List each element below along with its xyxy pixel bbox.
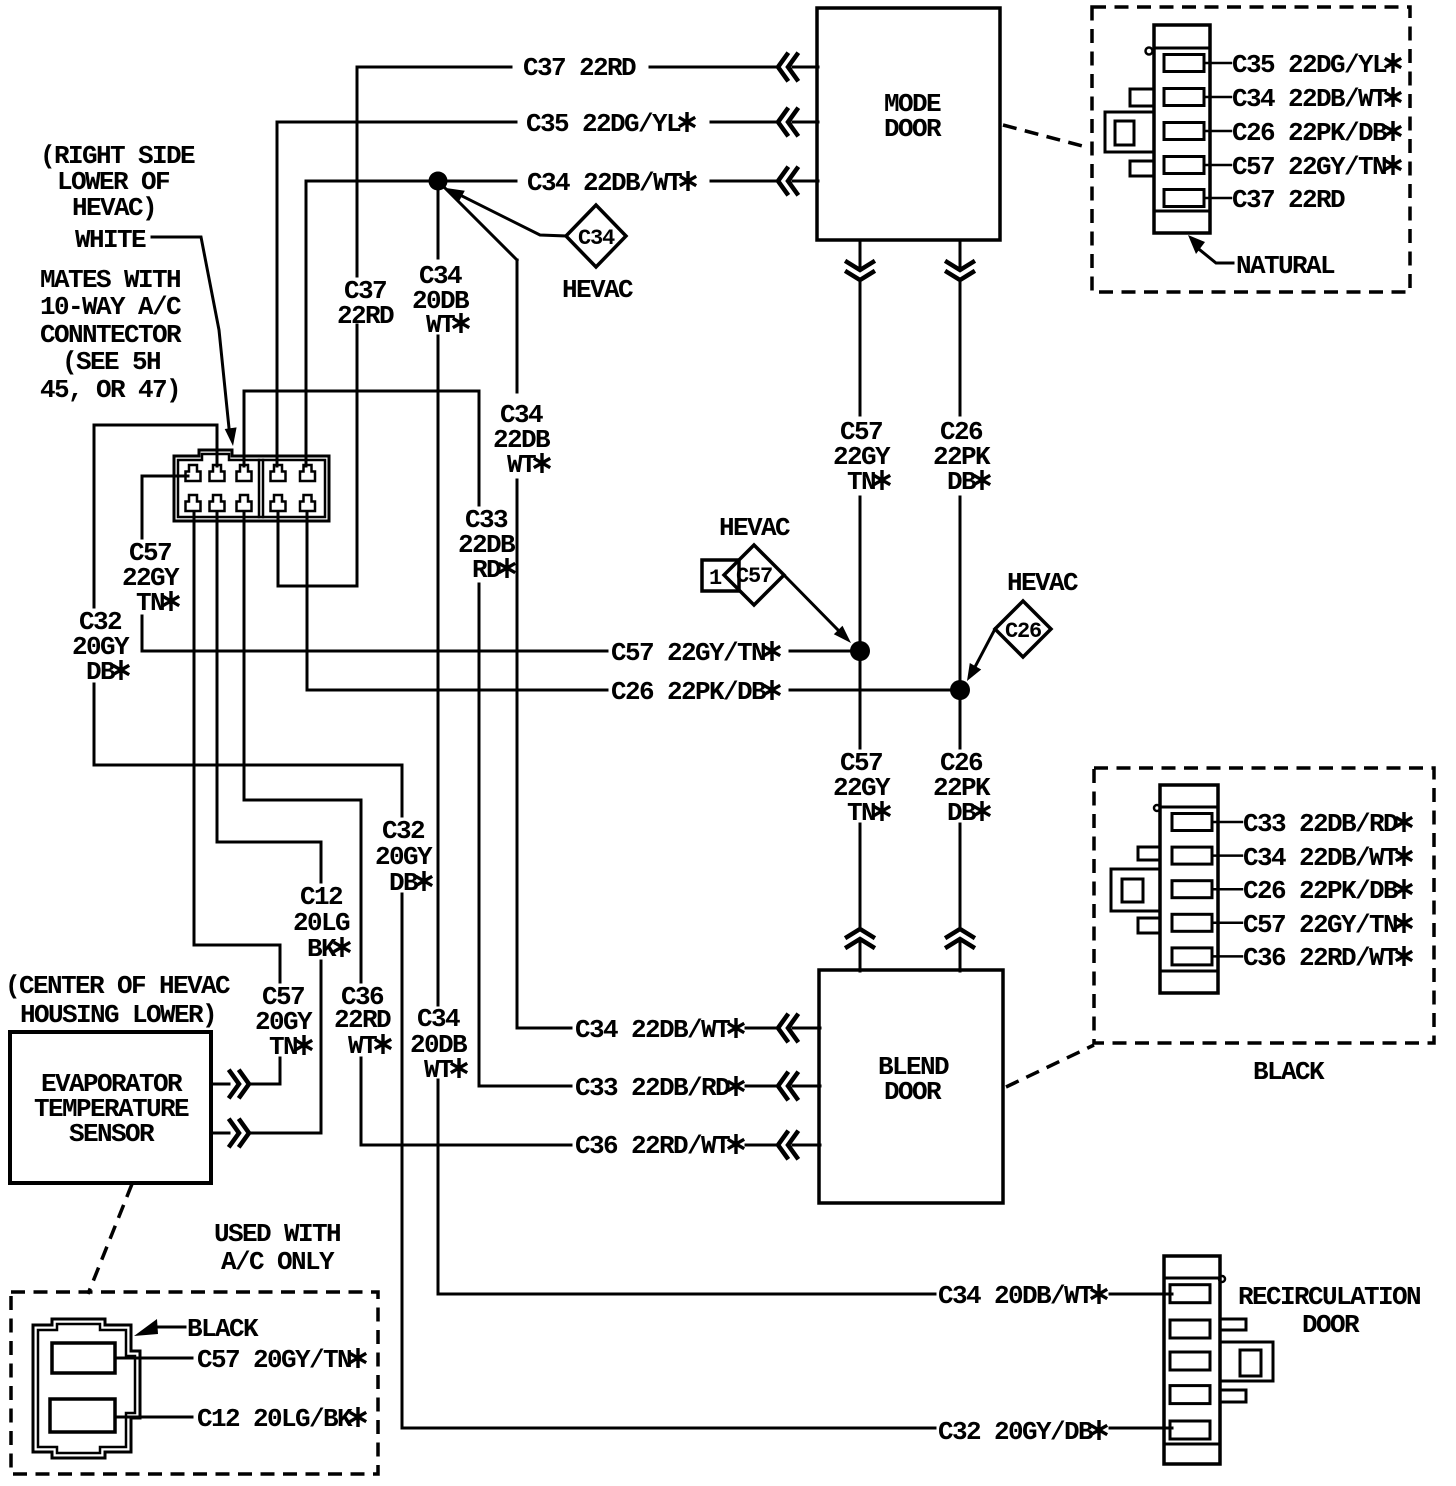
pin cavity 4 (natural) with lead bbox=[1164, 157, 1204, 174]
latch hook (black) bbox=[1154, 805, 1160, 811]
keyway bumps (natural) bbox=[1130, 89, 1154, 106]
svg-text:HEVAC: HEVAC bbox=[1007, 568, 1078, 598]
svg-text:DB: DB bbox=[86, 657, 116, 687]
svg-text:C33 22DB/RD: C33 22DB/RD bbox=[1243, 809, 1398, 839]
connector body (natural) bbox=[1154, 25, 1210, 233]
lead C12 20LG/BK* (sensor connector) bbox=[115, 1416, 192, 1419]
pin cavity 2 (recirculation door) bbox=[1170, 1320, 1210, 1338]
junction dot C57 bbox=[850, 641, 870, 661]
svg-text:WT: WT bbox=[424, 1055, 453, 1085]
svg-text:C34 20DB/WT: C34 20DB/WT bbox=[938, 1281, 1093, 1311]
svg-text:C33 22DB/RD: C33 22DB/RD bbox=[575, 1073, 730, 1103]
pin 7 bottom row J1 bbox=[210, 495, 225, 511]
svg-text:RD: RD bbox=[472, 555, 501, 585]
wire C12 20LG/BK* from J1 pin7 to evaporator sensor bbox=[211, 512, 321, 1133]
svg-text:HOUSING LOWER): HOUSING LOWER) bbox=[20, 1000, 216, 1030]
side lock block (recirculation) bbox=[1220, 1342, 1273, 1381]
pin cavity 2 (black) with lead bbox=[1172, 847, 1212, 864]
svg-text:C57 20GY/TN: C57 20GY/TN bbox=[197, 1345, 351, 1375]
svg-text:BK: BK bbox=[307, 934, 337, 964]
keyway bumps (black) bbox=[1138, 847, 1160, 860]
svg-text:C26 22PK/DB: C26 22PK/DB bbox=[1243, 876, 1399, 906]
box BLEND DOOR bbox=[819, 970, 1003, 1203]
svg-text:C57: C57 bbox=[736, 564, 772, 589]
pin cavity 1 (black) with lead bbox=[1172, 814, 1212, 831]
pin cavity 4 (recirculation door) bbox=[1170, 1386, 1210, 1404]
pin 3 top row J1 bbox=[237, 465, 252, 481]
svg-text:MATES WITH: MATES WITH bbox=[40, 265, 180, 295]
junction dot C26 bbox=[950, 680, 970, 700]
junction dot C34 bbox=[429, 172, 448, 191]
svg-text:DOOR: DOOR bbox=[884, 114, 942, 144]
side lock block (black) bbox=[1111, 869, 1160, 911]
svg-text:C32 20GY/DB: C32 20GY/DB bbox=[938, 1417, 1094, 1447]
svg-text:C12 20LG/BK: C12 20LG/BK bbox=[197, 1404, 353, 1434]
dashed detail box (sensor connector) bbox=[11, 1292, 378, 1474]
wire C34 20DB/WT* vertical run to recirculation door bbox=[438, 190, 1172, 1294]
svg-text:C34 22DB/WT: C34 22DB/WT bbox=[527, 168, 682, 198]
svg-text:C36 22RD/WT: C36 22RD/WT bbox=[1243, 943, 1398, 973]
pin cavity 3 (black) with lead bbox=[1172, 881, 1212, 898]
pin 1 top row J1 bbox=[186, 465, 201, 481]
svg-text:DOOR: DOOR bbox=[1302, 1310, 1360, 1340]
pin cavity 2 (natural) with lead bbox=[1164, 89, 1204, 106]
svg-text:DB: DB bbox=[389, 868, 419, 898]
pin cavity 5 (black) with lead bbox=[1172, 948, 1212, 965]
wire C34 22DB/WT* bbox=[306, 181, 818, 466]
wire C36 22RD/WT* from J1 pin8 to BLEND DOOR bbox=[244, 512, 820, 1145]
wire C32 20GY/DB* from J1 pin2 bbox=[94, 425, 1172, 1428]
wire C33 22DB/RD* from J1 pin3 to BLEND DOOR bbox=[244, 391, 820, 1086]
svg-text:C36 22RD/WT: C36 22RD/WT bbox=[575, 1131, 730, 1161]
svg-text:WHITE: WHITE bbox=[75, 225, 146, 255]
svg-text:USED WITH: USED WITH bbox=[214, 1219, 340, 1249]
svg-text:DB: DB bbox=[947, 467, 977, 497]
svg-text:C37 22RD: C37 22RD bbox=[523, 53, 636, 83]
chevrons below MODE DOOR (C57) bbox=[847, 262, 873, 280]
pin cavity 5 (natural) with lead bbox=[1164, 190, 1204, 207]
svg-text:HEVAC): HEVAC) bbox=[72, 193, 156, 223]
svg-text:NATURAL: NATURAL bbox=[1236, 251, 1335, 281]
svg-text:22RD: 22RD bbox=[337, 301, 394, 331]
svg-text:C34 22DB/WT: C34 22DB/WT bbox=[1243, 843, 1398, 873]
box MODE DOOR bbox=[817, 8, 1000, 240]
pin 8 bottom row J1 bbox=[237, 495, 252, 511]
terminal 1 (sensor connector) bbox=[52, 1343, 115, 1373]
connector J1 inner shell bbox=[178, 454, 325, 517]
dashed detail box (natural connector) bbox=[1092, 7, 1410, 292]
svg-text:(CENTER OF HEVAC: (CENTER OF HEVAC bbox=[5, 971, 230, 1001]
wire C37 22RD to MODE DOOR bbox=[278, 67, 818, 586]
connector symbol HEVAC C34 diamond bbox=[566, 205, 626, 267]
svg-text:1: 1 bbox=[709, 566, 722, 591]
svg-text:C57 22GY/TN: C57 22GY/TN bbox=[611, 638, 765, 668]
svg-text:WT: WT bbox=[426, 310, 455, 340]
svg-text:HEVAC: HEVAC bbox=[562, 275, 633, 305]
pin 10 bottom row J1 bbox=[300, 495, 315, 511]
dashed leader MODE DOOR to natural connector detail bbox=[1003, 125, 1090, 148]
side lock block (natural) bbox=[1105, 112, 1154, 152]
wire C26 22PK/DB* horizontal bbox=[307, 512, 951, 690]
svg-text:C26 22PK/DB: C26 22PK/DB bbox=[1232, 118, 1388, 148]
leader arrow HEVAC C26 to junction bbox=[976, 629, 996, 666]
connector symbol HEVAC C26 diamond bbox=[995, 601, 1051, 657]
connector body (black) bbox=[1160, 785, 1218, 993]
connector J1 10-way outer shell bbox=[174, 450, 329, 521]
pin 9 bottom row J1 bbox=[271, 495, 286, 511]
terminal 2 (sensor connector) bbox=[50, 1399, 115, 1432]
dashed leader BLEND DOOR to black connector detail bbox=[1006, 1045, 1094, 1087]
svg-text:DOOR: DOOR bbox=[884, 1077, 942, 1107]
svg-text:CONNTECTOR: CONNTECTOR bbox=[40, 320, 182, 350]
wire C57 22GY/TN* column from MODE DOOR bbox=[859, 241, 862, 971]
chevrons C37 into MODE DOOR bbox=[778, 55, 797, 80]
svg-text:RECIRCULATION: RECIRCULATION bbox=[1238, 1282, 1420, 1312]
chevrons evaporator sensor C57 bbox=[230, 1072, 249, 1097]
svg-text:C34 22DB/WT: C34 22DB/WT bbox=[575, 1015, 730, 1045]
leader arrow from WHITE to connector J1 bbox=[152, 237, 229, 428]
svg-text:C26 22PK/DB: C26 22PK/DB bbox=[611, 677, 767, 707]
pin cavity 1 (recirculation door) bbox=[1170, 1285, 1210, 1303]
svg-text:C34: C34 bbox=[578, 226, 615, 251]
svg-text:TN: TN bbox=[269, 1032, 297, 1062]
svg-text:WT: WT bbox=[507, 450, 536, 480]
svg-text:A/C ONLY: A/C ONLY bbox=[221, 1247, 335, 1277]
svg-text:(SEE 5H: (SEE 5H bbox=[62, 347, 160, 377]
latch hook (recirculation) bbox=[1219, 1276, 1225, 1282]
svg-text:DB: DB bbox=[947, 798, 977, 828]
svg-text:10-WAY A/C: 10-WAY A/C bbox=[40, 292, 181, 322]
svg-text:C37 22RD: C37 22RD bbox=[1232, 185, 1345, 215]
wire C34 22DB/WT* branch to BLEND DOOR bbox=[443, 186, 820, 1028]
box EVAPORATOR TEMPERATURE SENSOR bbox=[10, 1032, 211, 1183]
chevrons C35 into MODE DOOR bbox=[778, 110, 797, 135]
pin 2 top row J1 bbox=[210, 465, 225, 481]
pin cavity 3 (recirculation door) bbox=[1170, 1352, 1210, 1370]
connector symbol HEVAC 1 C57 diamond with pin box bbox=[702, 560, 739, 591]
svg-text:WT: WT bbox=[348, 1031, 377, 1061]
svg-text:TN: TN bbox=[847, 798, 875, 828]
dashed leader evaporator sensor to connector detail bbox=[88, 1184, 132, 1294]
chevrons C34 into MODE DOOR bbox=[778, 169, 797, 194]
dashed detail box (black connector) bbox=[1094, 768, 1434, 1043]
connector body (recirculation door) bbox=[1164, 1256, 1220, 1464]
chevrons C36 into BLEND DOOR bbox=[778, 1133, 797, 1158]
svg-text:BLACK: BLACK bbox=[1253, 1057, 1325, 1087]
lead C57 20GY/TN* (sensor connector) bbox=[115, 1357, 192, 1360]
chevrons C33 into BLEND DOOR bbox=[778, 1074, 797, 1099]
pin cavity 3 (natural) with lead bbox=[1164, 123, 1204, 140]
pin 6 bottom row J1 bbox=[186, 495, 201, 511]
chevrons C34 into BLEND DOOR bbox=[778, 1016, 797, 1041]
wire C57 20GY/TN* from J1 pin6 to evaporator sensor bbox=[194, 512, 280, 1084]
svg-text:HEVAC: HEVAC bbox=[719, 513, 790, 543]
connector J1 center divider bbox=[259, 460, 263, 517]
chevrons evaporator sensor C12 bbox=[230, 1121, 249, 1146]
chevrons below MODE DOOR (C26) bbox=[947, 262, 973, 280]
svg-text:C57 22GY/TN: C57 22GY/TN bbox=[1243, 910, 1397, 940]
svg-text:TN: TN bbox=[136, 588, 164, 618]
leader arrow HEVAC C57 to junction bbox=[784, 575, 838, 630]
leader arrow HEVAC C34 to junction bbox=[462, 196, 566, 236]
pin cavity 5 (recirculation door) bbox=[1170, 1421, 1210, 1439]
svg-text:C35 22DG/YL: C35 22DG/YL bbox=[1232, 50, 1387, 80]
svg-text:C57 22GY/TN: C57 22GY/TN bbox=[1232, 152, 1386, 182]
svg-text:C35 22DG/YL: C35 22DG/YL bbox=[526, 109, 681, 139]
connector outer shell (sensor 2-way) bbox=[33, 1319, 140, 1458]
connector inner shell (sensor 2-way) bbox=[38, 1324, 135, 1453]
wire C57 22GY/TN* horizontal bbox=[142, 650, 852, 653]
wire C35 22DG/YL* bbox=[277, 122, 818, 466]
svg-text:SENSOR: SENSOR bbox=[69, 1119, 155, 1149]
pin cavity 1 (natural) with lead bbox=[1164, 55, 1204, 72]
svg-text:C26: C26 bbox=[1005, 619, 1041, 644]
svg-text:BLACK: BLACK bbox=[187, 1314, 259, 1344]
pin 5 top row J1 bbox=[300, 465, 315, 481]
svg-text:C34 22DB/WT: C34 22DB/WT bbox=[1232, 84, 1387, 114]
pin cavity 4 (black) with lead bbox=[1172, 914, 1212, 931]
wire C26 22PK/DB* column from MODE DOOR bbox=[959, 241, 962, 971]
latch hook (natural) bbox=[1146, 48, 1153, 55]
svg-text:TN: TN bbox=[847, 467, 875, 497]
svg-text:45, OR 47): 45, OR 47) bbox=[40, 375, 180, 405]
keyway bumps (recirculation) bbox=[1220, 1319, 1246, 1330]
pin 4 top row J1 bbox=[271, 465, 286, 481]
chevrons into BLEND DOOR top (C57) bbox=[847, 929, 873, 947]
wire C57 22GY/TN* from J1 pin1 to horizontal run bbox=[142, 476, 188, 651]
chevrons into BLEND DOOR top (C26) bbox=[947, 929, 973, 947]
